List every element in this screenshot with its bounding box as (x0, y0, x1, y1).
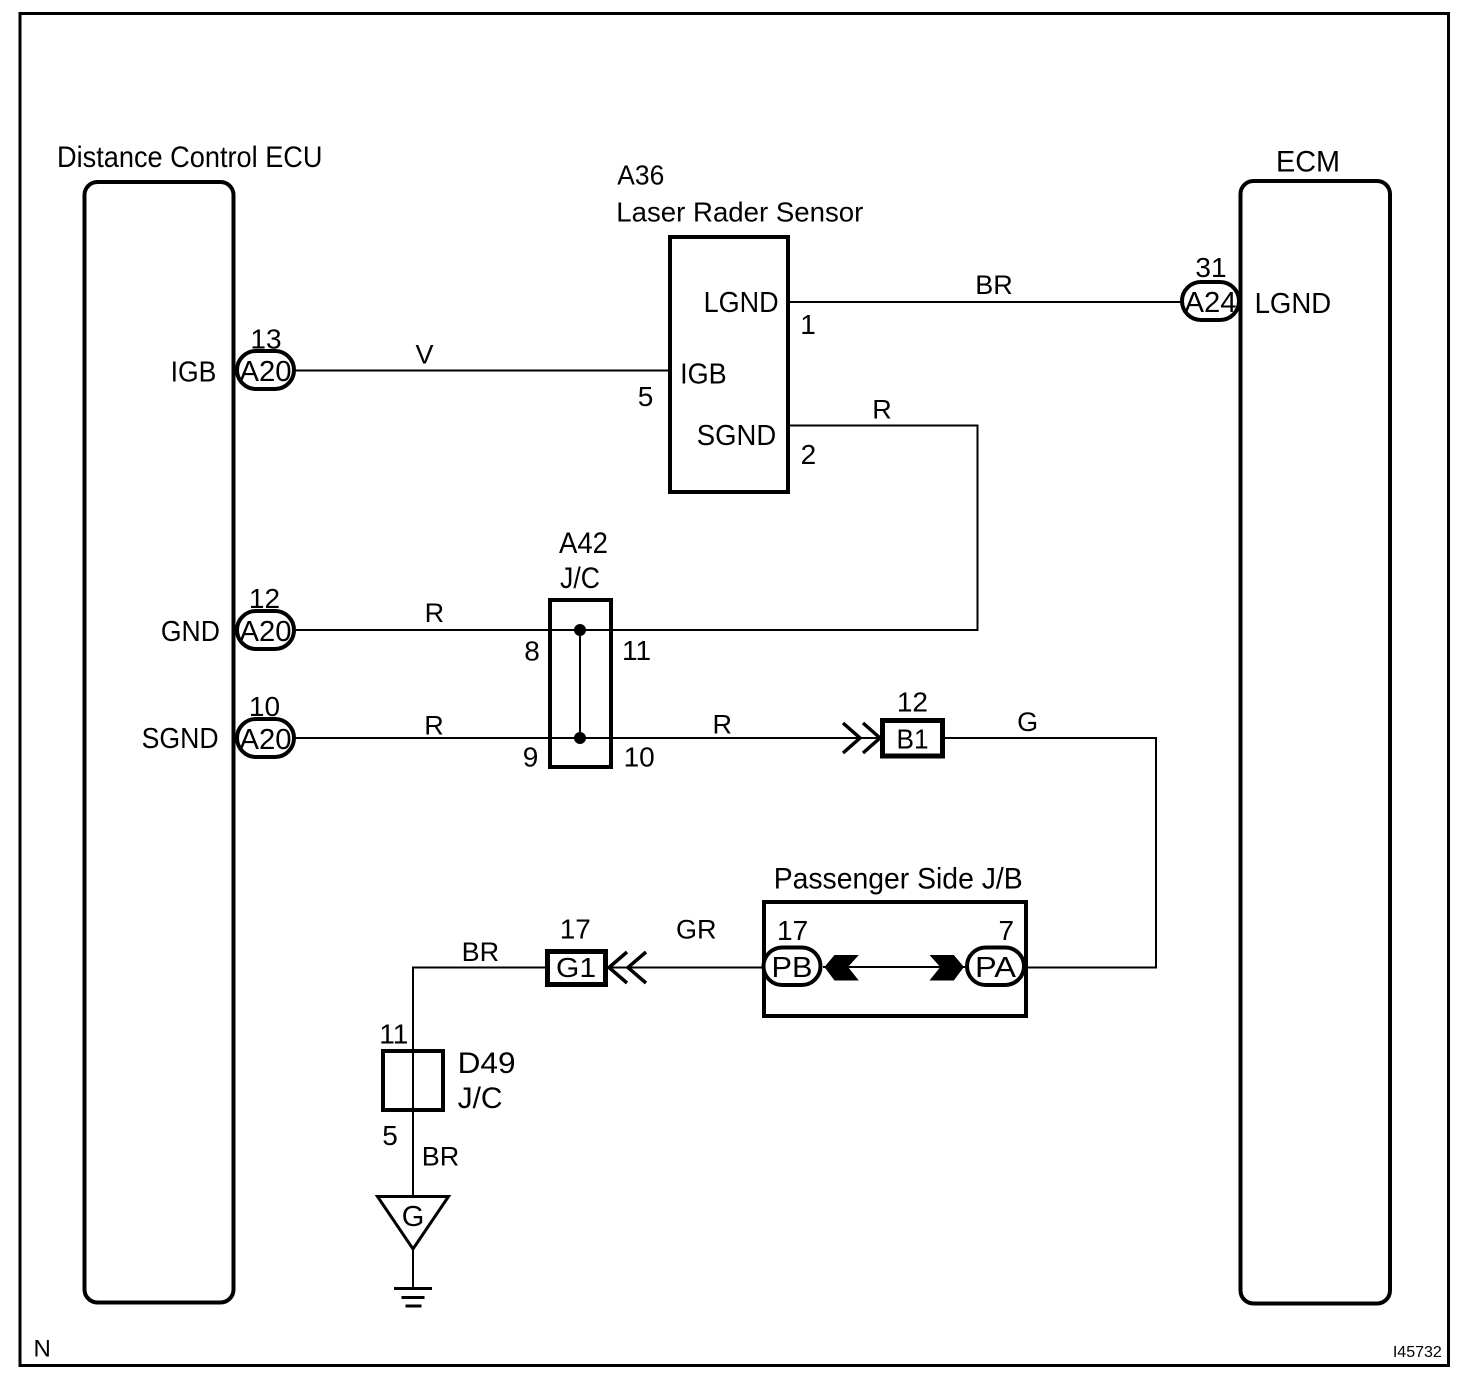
pin 9 of A42 (523, 742, 539, 773)
connector A24 (1182, 282, 1239, 320)
svg-text:IGB: IGB (171, 357, 217, 389)
svg-text:12: 12 (897, 686, 928, 717)
svg-text:G: G (402, 1201, 425, 1233)
svg-text:SGND: SGND (142, 723, 219, 755)
pin GND of ECU (161, 616, 220, 648)
svg-text:A20: A20 (240, 356, 292, 388)
svg-text:D49: D49 (458, 1047, 516, 1080)
wire V from A20 to A36 IGB (296, 370, 668, 372)
svg-text:G: G (1017, 707, 1038, 737)
connector A20 SGND (237, 719, 294, 757)
junction connector A42 box (550, 600, 611, 767)
pin SGND of A36 (697, 420, 776, 452)
chevron arrows into G1 (609, 952, 646, 983)
pin 1 of A36 (800, 309, 816, 340)
svg-text:A20: A20 (240, 616, 292, 648)
connector PB (764, 948, 821, 986)
passenger side J/B label (774, 863, 1023, 896)
pin 31 of connector A24 (1195, 252, 1226, 283)
ECU label Distance Control ECU (57, 141, 323, 174)
svg-text:5: 5 (638, 381, 654, 412)
svg-text:SGND: SGND (697, 420, 776, 452)
svg-text:BR: BR (422, 1142, 460, 1172)
wire label BR below D49 (422, 1142, 460, 1172)
pin 5 of D49 (382, 1120, 398, 1151)
junction link inside A42 (574, 624, 586, 744)
passenger side J/B box (764, 902, 1026, 1016)
earth ground hatching (394, 1289, 432, 1307)
svg-text:PB: PB (772, 952, 813, 984)
svg-text:A42: A42 (559, 527, 608, 560)
svg-text:A36: A36 (617, 160, 664, 191)
svg-text:Distance Control ECU: Distance Control ECU (57, 141, 323, 174)
junction connector A42 label (559, 527, 608, 595)
connector PA (967, 948, 1024, 986)
ground symbol G (378, 1197, 449, 1250)
svg-text:G1: G1 (556, 952, 596, 983)
pin 5 of A36 (638, 381, 654, 412)
pin 17 of G1 (560, 913, 591, 944)
svg-text:9: 9 (523, 742, 539, 773)
connector G1 (548, 952, 606, 985)
wire R from A36 SGND down to GND net (790, 426, 978, 631)
svg-text:B1: B1 (897, 724, 929, 755)
wire BR from G1 down to D49 (413, 968, 545, 1196)
svg-text:LGND: LGND (1255, 288, 1332, 320)
wire label BR (462, 937, 500, 967)
svg-text:BR: BR (975, 270, 1013, 300)
wire G from B1 to passenger side J/B (945, 738, 1156, 968)
pin 11 of D49 (379, 1018, 408, 1049)
solid arrow pointing left at PB (824, 955, 858, 981)
pin LGND of ECM (1255, 288, 1332, 320)
pin 7 of PA (999, 915, 1015, 946)
pin 10 of connector A20 (249, 691, 280, 722)
wire label V (415, 339, 433, 369)
svg-text:J/C: J/C (458, 1082, 503, 1115)
wire label R (424, 710, 444, 740)
svg-text:PA: PA (975, 952, 1017, 984)
svg-text:R: R (872, 395, 892, 425)
svg-text:11: 11 (379, 1018, 408, 1049)
pin 13 of connector A20 (250, 324, 281, 355)
pin 17 of PB (777, 915, 808, 946)
pin IGB of A36 (680, 359, 727, 391)
wire between PB and PA (823, 966, 965, 968)
connector B1 (883, 721, 943, 757)
pin 12 of connector A20 (249, 583, 280, 614)
svg-text:ECM: ECM (1276, 146, 1340, 179)
junction connector D49 label (458, 1047, 516, 1115)
laser radar sensor A36 box (670, 237, 788, 492)
pin 10 of A42 (624, 742, 655, 773)
svg-text:11: 11 (622, 635, 651, 666)
svg-text:31: 31 (1195, 252, 1226, 283)
pin IGB of ECU (171, 357, 217, 389)
wire label GR (676, 914, 717, 944)
wire label R (872, 395, 892, 425)
pin 12 of B1 (897, 686, 928, 717)
svg-text:A24: A24 (1185, 287, 1237, 319)
solid arrow pointing right at PA (930, 955, 964, 981)
wire from ground triangle to earth (412, 1249, 414, 1289)
connector A20 IGB (237, 351, 294, 389)
pin SGND of ECU (142, 723, 219, 755)
svg-text:1: 1 (800, 309, 816, 340)
svg-text:R: R (425, 598, 445, 628)
svg-text:17: 17 (777, 915, 808, 946)
chevron arrows into B1 (843, 723, 880, 753)
wire R from A20 GND through A42 (296, 629, 979, 631)
svg-text:17: 17 (560, 913, 591, 944)
svg-text:J/C: J/C (560, 562, 600, 595)
svg-text:A20: A20 (240, 724, 292, 756)
pin 2 of A36 (801, 439, 817, 470)
svg-text:N: N (34, 1335, 51, 1362)
laser radar sensor A36 label (616, 160, 863, 228)
wire BR from A36 LGND to A24 (790, 301, 1182, 303)
page note N (34, 1335, 51, 1362)
svg-text:LGND: LGND (704, 287, 779, 319)
figure number I45732 (1393, 1344, 1442, 1361)
wire label R near B1 (713, 709, 733, 739)
wire R from A20 SGND to B1 (296, 737, 880, 739)
svg-text:8: 8 (524, 636, 540, 667)
svg-text:BR: BR (462, 937, 500, 967)
svg-text:GND: GND (161, 616, 220, 648)
svg-text:Laser Rader Sensor: Laser Rader Sensor (616, 196, 863, 227)
wire label R (425, 598, 445, 628)
ECU block Distance Control ECU (85, 182, 234, 1303)
junction connector D49 box (383, 1051, 443, 1110)
connector A20 GND (237, 611, 294, 649)
svg-text:GR: GR (676, 914, 717, 944)
pin 8 of A42 (524, 636, 540, 667)
pin 11 of A42 (622, 635, 651, 666)
ECM block (1241, 181, 1391, 1304)
pin LGND of A36 (704, 287, 779, 319)
wire label BR (975, 270, 1013, 300)
wire label G (1017, 707, 1038, 737)
svg-text:2: 2 (801, 439, 817, 470)
svg-text:10: 10 (624, 742, 655, 773)
ECM label (1276, 146, 1340, 179)
svg-text:5: 5 (382, 1120, 398, 1151)
svg-text:Passenger Side J/B: Passenger Side J/B (774, 863, 1023, 896)
svg-text:7: 7 (999, 915, 1015, 946)
svg-text:V: V (415, 339, 433, 369)
wire GR from PB to G1 (607, 967, 763, 969)
svg-text:R: R (713, 709, 733, 739)
svg-text:IGB: IGB (680, 359, 727, 391)
svg-text:R: R (424, 710, 444, 740)
svg-text:I45732: I45732 (1393, 1344, 1442, 1361)
